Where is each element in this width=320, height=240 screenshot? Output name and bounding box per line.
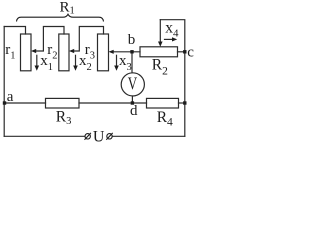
svg-text:a: a	[7, 89, 14, 105]
svg-text:d: d	[130, 103, 138, 119]
arrowhead: r1 wiper (points left at rect edge)	[31, 49, 36, 53]
resistor R3 body	[46, 98, 80, 108]
potentiometer R2 body	[140, 47, 178, 57]
resistor r1 body	[21, 34, 32, 71]
svg-text:U: U	[93, 129, 105, 146]
svg-text:V: V	[128, 73, 137, 93]
resistor r2 body	[59, 34, 69, 71]
arrowhead: r2 wiper	[69, 49, 74, 53]
wire: voltmeter bottom to node d	[131, 96, 133, 103]
node b dot	[130, 50, 133, 53]
wire: bottom left to terminal	[4, 135, 85, 137]
adjustment arrow x3 shaft	[116, 55, 118, 66]
resistor R4 body	[147, 98, 179, 108]
wire: node b down to voltmeter	[131, 52, 133, 73]
wire: left vertical side	[3, 27, 5, 137]
terminal left	[85, 133, 91, 140]
brace over R1 group	[17, 14, 104, 21]
adjustment arrow x2 shaft	[75, 55, 77, 66]
wire: R2 right to node c	[178, 51, 185, 53]
wire: bottom right from terminal	[112, 135, 184, 137]
wire: a horizontal left to R3	[4, 102, 45, 104]
svg-text:b: b	[128, 32, 136, 48]
wire: top segment into r1	[4, 27, 25, 35]
adjustment arrow x1 shaft	[36, 55, 38, 66]
node c dot	[183, 50, 186, 53]
arrowhead: r3 wiper	[109, 50, 114, 54]
arrow x4 annotation shaft	[165, 38, 173, 40]
voltmeter V circle	[121, 73, 144, 96]
arrowhead: x2 down	[73, 66, 78, 71]
wire: r1 wiper riser and top segment into r2	[36, 27, 64, 52]
wire: R2 wiper stem from loop	[159, 20, 161, 44]
wire: x4 loop top and right vertical down to bottom	[160, 20, 185, 137]
node dot right of R4	[183, 101, 186, 104]
node d dot	[131, 101, 134, 104]
node a dot	[3, 101, 6, 104]
arrowhead: x4 annotation right	[172, 37, 177, 41]
arrowhead: x3 down	[114, 66, 119, 71]
wire: r3 wiper to node b to R2	[113, 51, 140, 53]
wire: R4 right to right vertical	[179, 102, 185, 104]
terminal right	[106, 133, 112, 140]
wire: R3 to R4 through node d	[79, 102, 147, 104]
resistor r3 body	[98, 34, 109, 71]
arrowhead: R2 wiper down onto box	[158, 42, 163, 47]
svg-text:c: c	[187, 44, 194, 60]
wire: r2 wiper riser and top segment into r3	[74, 27, 104, 52]
arrowhead: x1 down	[35, 66, 40, 71]
